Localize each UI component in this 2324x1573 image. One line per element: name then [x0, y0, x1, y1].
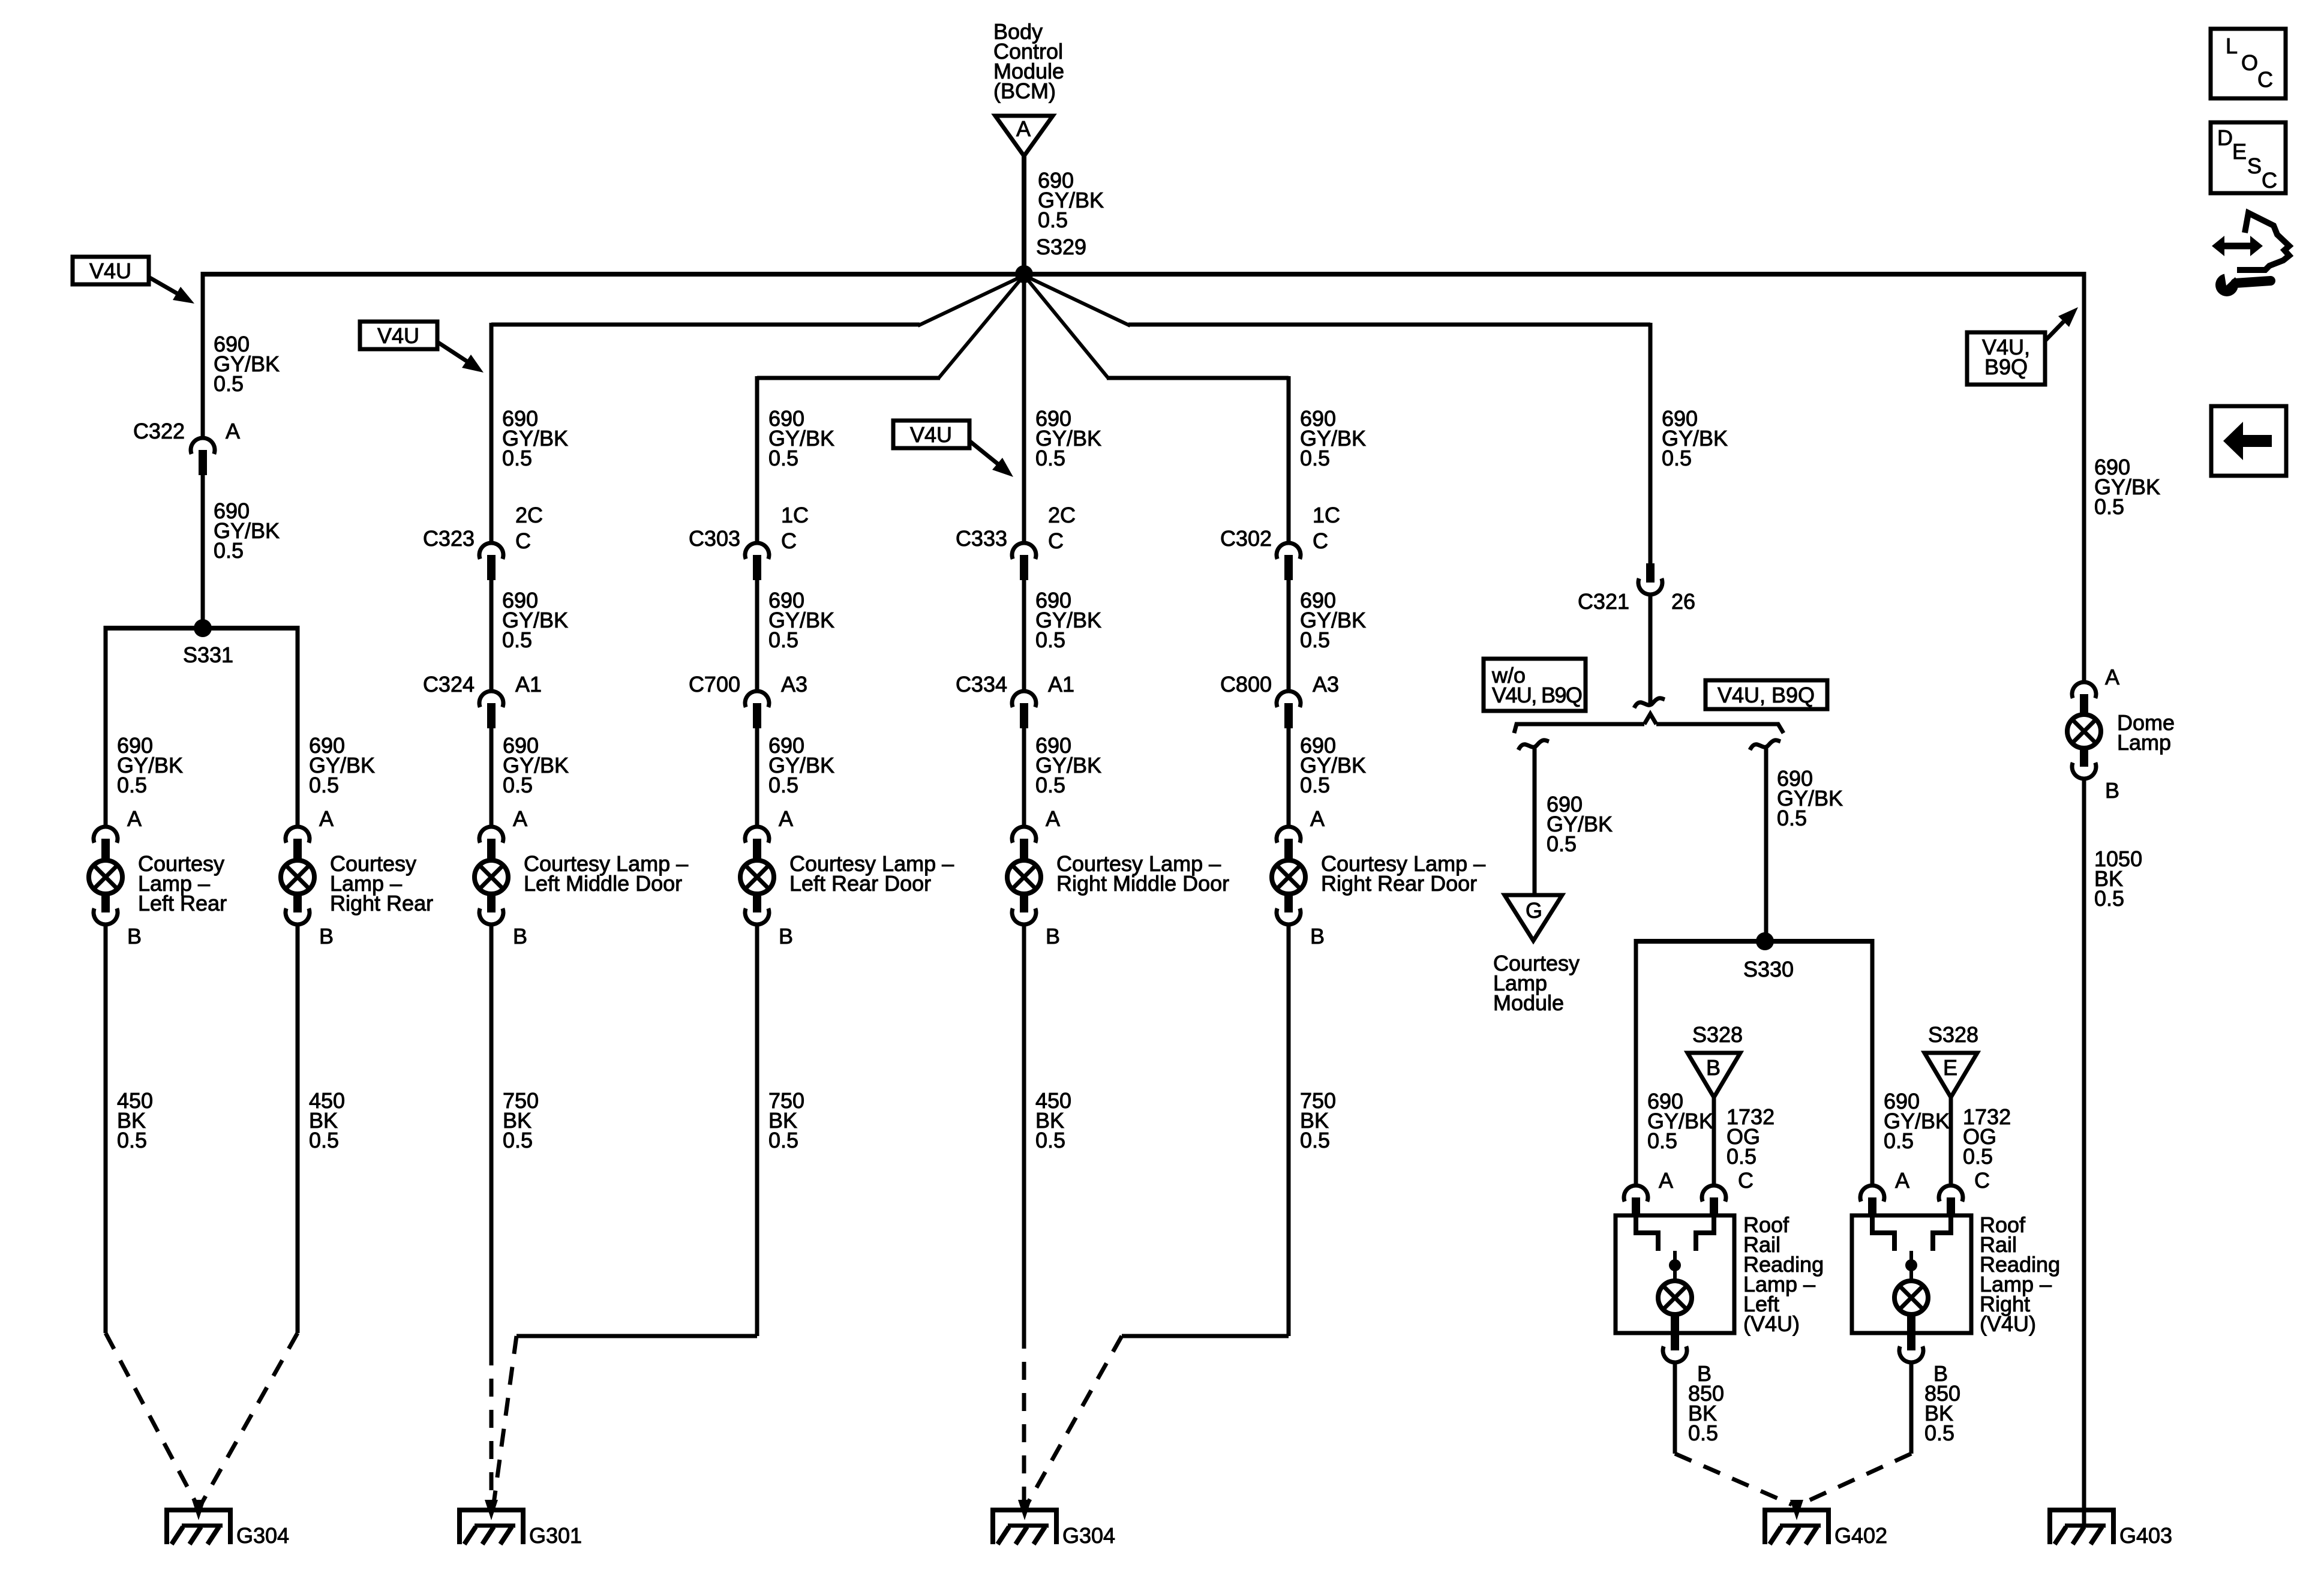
wire S328 B to pin C: [1712, 1097, 1716, 1187]
wire dashed to G304 (from right-rear lamp): [202, 1333, 298, 1503]
svg-text:0.5: 0.5: [768, 446, 798, 470]
svg-text:Module: Module: [1493, 990, 1564, 1015]
svg-text:1C: 1C: [1313, 503, 1340, 527]
ground G403: [2047, 1508, 2116, 1512]
wire dashed to G304 (from left-rear lamp): [106, 1333, 196, 1503]
svg-text:G304: G304: [236, 1523, 289, 1548]
svg-text:0.5: 0.5: [768, 773, 798, 797]
svg-text:C800: C800: [1220, 672, 1272, 697]
pin C connector (left reading lamp): [1702, 1185, 1726, 1202]
svg-text:0.5: 0.5: [214, 538, 244, 563]
svg-text:B9Q: B9Q: [1984, 355, 2028, 379]
svg-text:0.5: 0.5: [1547, 831, 1577, 856]
svg-text:0.5: 0.5: [2094, 494, 2124, 519]
svg-text:0.5: 0.5: [1300, 773, 1330, 797]
connector C700: [745, 691, 769, 707]
pin B connector of Courtesy Lamp Left Middle Door: [479, 908, 503, 924]
wire S328 E to pin C: [1949, 1097, 1953, 1187]
wire S331 to left-rear lamp: [104, 626, 108, 828]
svg-text:0.5: 0.5: [309, 773, 339, 797]
svg-text:C: C: [2262, 168, 2277, 193]
lamp left internal contact A: [1636, 1215, 1658, 1251]
lamp right pin B bar: [1907, 1314, 1915, 1350]
V4U flag box 3: [893, 421, 969, 448]
svg-text:C323: C323: [423, 526, 475, 551]
svg-text:A1: A1: [1048, 672, 1074, 697]
svg-text:C: C: [2257, 67, 2273, 92]
wire dashed to G402 (from left reading lamp): [1675, 1454, 1792, 1505]
svg-text:Right Middle Door: Right Middle Door: [1056, 871, 1229, 896]
dome lamp pin B bar: [2080, 748, 2088, 767]
lamp right internal contact C: [1933, 1215, 1951, 1251]
pin A connector of Courtesy Lamp Left Middle Door: [479, 827, 503, 843]
svg-text:G402: G402: [1834, 1523, 1887, 1548]
wire right reading lamp B down: [1909, 1362, 1914, 1454]
courtesy lamp Courtesy Lamp Right Rear: [281, 860, 314, 894]
wire S331 crossbar: [106, 626, 298, 631]
svg-text:0.5: 0.5: [1300, 1128, 1330, 1152]
lamp left internal stem: [1673, 1251, 1677, 1279]
svg-text:B: B: [127, 924, 142, 948]
connector C333: [1012, 543, 1036, 559]
svg-text:C334: C334: [956, 672, 1007, 697]
pin A connector (left reading lamp): [1624, 1185, 1648, 1202]
svg-text:(V4U): (V4U): [1980, 1311, 2036, 1336]
svg-text:0.5: 0.5: [117, 773, 147, 797]
wire branch down to C321: [1649, 323, 1653, 563]
svg-text:0.5: 0.5: [1035, 1128, 1065, 1152]
wire break mark (above split): [1634, 698, 1665, 708]
pin B connector of Courtesy Lamp Left Rear Door: [745, 908, 769, 924]
pin A connector of dome lamp: [2072, 682, 2096, 698]
courtesy lamp Courtesy Lamp Left Rear Door: [740, 860, 774, 894]
connector C321: [1638, 578, 1662, 595]
svg-text:C324: C324: [423, 672, 475, 697]
pin A connector of Courtesy Lamp Left Rear: [94, 827, 118, 843]
svg-text:C303: C303: [689, 526, 740, 551]
vehicle harness icon: [2237, 213, 2289, 270]
wire main bus from S329 right: [1024, 272, 2085, 277]
svg-text:B: B: [513, 924, 527, 948]
svg-text:0.5: 0.5: [1884, 1128, 1914, 1153]
courtesy lamp Courtesy Lamp Right Rear Door: [1272, 860, 1305, 894]
svg-text:V4U: V4U: [910, 422, 952, 447]
svg-text:0.5: 0.5: [1038, 208, 1068, 232]
lamp left bulb: [1658, 1281, 1692, 1314]
svg-text:2C: 2C: [515, 503, 543, 527]
svg-text:0.5: 0.5: [768, 628, 798, 652]
wire C700 to lamp: [755, 728, 759, 828]
connector C800: [1277, 691, 1301, 707]
svg-text:V4U, B9Q: V4U, B9Q: [1718, 683, 1815, 707]
svg-text:V4U: V4U: [377, 323, 419, 348]
ground G304 (left): [164, 1508, 233, 1512]
wire left-middle lamp B down: [490, 924, 494, 1347]
svg-text:S331: S331: [183, 643, 233, 667]
svg-text:0.5: 0.5: [1300, 446, 1330, 470]
svg-text:A: A: [1659, 1168, 1673, 1193]
splice S331: [194, 619, 212, 637]
wire C334 to lamp: [1022, 728, 1026, 828]
svg-text:C321: C321: [1578, 589, 1629, 614]
pin bar below Courtesy Lamp Left Rear Door: [753, 894, 761, 912]
pin A connector (right reading lamp): [1860, 1185, 1884, 1202]
wire C321 branch horizontal: [1128, 323, 1650, 327]
option split brace: [1514, 724, 1644, 733]
wire branch down to C302: [1287, 376, 1291, 543]
wire left-rear-door branch horizontal: [757, 376, 940, 380]
wire bus to C322: [201, 272, 205, 438]
lamp right internal contact A: [1872, 1215, 1894, 1251]
svg-text:(BCM): (BCM): [993, 79, 1056, 103]
svg-text:A: A: [319, 806, 334, 831]
connector C334: [1012, 691, 1036, 707]
lamp left internal contact C: [1696, 1215, 1714, 1251]
wire S329 to right-rear-door branch (diagonal): [1024, 275, 1109, 379]
pin A connector of Courtesy Lamp Right Middle Door: [1012, 827, 1036, 843]
svg-text:0.5: 0.5: [503, 773, 533, 797]
wire left-rear lamp B down: [104, 924, 108, 1333]
pin B connector (right reading lamp): [1899, 1346, 1923, 1362]
svg-text:Right Rear: Right Rear: [330, 891, 433, 915]
wire C324 to lamp: [490, 728, 494, 828]
svg-text:A: A: [2105, 665, 2119, 689]
wire right-rear lamp B down: [296, 924, 300, 1333]
svg-text:E: E: [1943, 1055, 1957, 1080]
svg-text:L: L: [2226, 34, 2238, 58]
svg-text:0.5: 0.5: [1777, 806, 1807, 830]
svg-text:0.5: 0.5: [1035, 773, 1065, 797]
svg-text:A1: A1: [515, 672, 542, 697]
svg-text:S328: S328: [1928, 1022, 1978, 1047]
wire BCM A to splice S329: [1022, 156, 1026, 277]
wire dashed to G301 (diagonal): [494, 1336, 517, 1503]
pin A connector of Courtesy Lamp Left Rear Door: [745, 827, 769, 843]
svg-text:26: 26: [1671, 589, 1695, 614]
svg-text:0.5: 0.5: [1924, 1421, 1954, 1445]
svg-text:(V4U): (V4U): [1743, 1311, 1800, 1336]
pin B connector of Courtesy Lamp Right Rear: [286, 908, 310, 924]
roof rail reading lamp left box: [1616, 1215, 1734, 1333]
wire S331 to right-rear lamp: [296, 626, 300, 828]
svg-text:E: E: [2232, 139, 2247, 164]
connector C324: [479, 691, 503, 707]
svg-text:C: C: [781, 529, 797, 553]
BCM connector triangle A: [995, 116, 1053, 156]
wire left-middle-door branch horizontal: [491, 323, 920, 327]
svg-text:C700: C700: [689, 672, 740, 697]
pin bar below Courtesy Lamp Left Rear: [101, 894, 110, 912]
courtesy lamp Courtesy Lamp Right Middle Door: [1007, 860, 1041, 894]
wire C321 down to option split: [1649, 595, 1653, 703]
svg-text:A: A: [1016, 116, 1031, 141]
pin B connector of dome lamp: [2072, 763, 2096, 779]
svg-text:A: A: [226, 419, 240, 443]
wire S329 to left-rear-door branch (diagonal): [938, 275, 1024, 379]
svg-text:S: S: [2247, 154, 2262, 178]
wire C800 to lamp: [1287, 728, 1291, 828]
svg-text:0.5: 0.5: [1727, 1144, 1756, 1169]
svg-text:0.5: 0.5: [214, 371, 244, 396]
wire branch down to C323: [490, 323, 494, 543]
svg-text:0.5: 0.5: [1647, 1128, 1677, 1153]
w/o V4U B9Q option box: [1484, 659, 1586, 711]
svg-text:Right Rear Door: Right Rear Door: [1321, 871, 1477, 896]
svg-text:0.5: 0.5: [309, 1128, 339, 1152]
svg-text:C: C: [1738, 1168, 1753, 1193]
V4U flag box 1: [73, 257, 149, 284]
svg-text:O: O: [2241, 50, 2258, 75]
wire S329 to C321 branch (diagonal): [1024, 275, 1130, 326]
svg-text:A: A: [779, 806, 793, 831]
wire dashed to G304 middle (vertical): [1022, 1331, 1026, 1505]
connector C303: [745, 543, 769, 559]
wire left-rear-door lamp horizontal to G301: [517, 1334, 757, 1338]
svg-text:V4U, B9Q: V4U, B9Q: [1492, 683, 1582, 707]
wire S330 to right reading lamp pin A: [1870, 939, 1875, 1187]
svg-text:A3: A3: [781, 672, 807, 697]
wire branch down to C303: [755, 376, 759, 543]
pin bar below Courtesy Lamp Right Rear: [293, 894, 302, 912]
wire right-rear-door lamp B down: [1287, 924, 1291, 1336]
svg-text:A: A: [513, 806, 527, 831]
svg-text:B: B: [2105, 778, 2119, 803]
lamp right bulb: [1894, 1281, 1928, 1314]
connector C323: [479, 543, 503, 559]
svg-text:S329: S329: [1036, 235, 1086, 259]
wire right-rear-door lamp horizontal to G304: [1122, 1334, 1289, 1338]
svg-text:0.5: 0.5: [503, 1128, 533, 1152]
pin C connector (right reading lamp): [1939, 1185, 1963, 1202]
svg-text:G304: G304: [1062, 1523, 1115, 1548]
svg-text:C322: C322: [133, 419, 185, 443]
wire S330 crossbar: [1636, 939, 1872, 944]
svg-text:A: A: [127, 806, 142, 831]
svg-text:G301: G301: [529, 1523, 582, 1548]
svg-text:D: D: [2217, 125, 2233, 150]
wire right-rear-door branch horizontal: [1107, 376, 1289, 380]
svg-text:0.5: 0.5: [2094, 886, 2124, 911]
wire C323 to C324: [490, 580, 494, 691]
splice S330: [1756, 932, 1774, 950]
V4U B9Q flag box (dome lamp): [1967, 332, 2045, 385]
svg-text:G: G: [1526, 898, 1542, 923]
V4U B9Q flag arrow (dome lamp): [2045, 322, 2064, 341]
svg-text:C: C: [1974, 1168, 1990, 1193]
lamp left pin B bar: [1671, 1314, 1679, 1350]
svg-text:C: C: [515, 529, 531, 553]
svg-text:S330: S330: [1743, 957, 1794, 981]
svg-text:A: A: [1895, 1168, 1909, 1193]
wire left reading lamp B down: [1673, 1362, 1677, 1454]
wire V4U branch down to S330: [1764, 748, 1768, 941]
wire left-rear-door lamp B down: [755, 924, 759, 1336]
wire S329 to left-middle-door branch (diagonal): [918, 275, 1024, 326]
pin B connector of Courtesy Lamp Right Middle Door: [1012, 908, 1036, 924]
svg-text:1C: 1C: [781, 503, 809, 527]
svg-text:0.5: 0.5: [502, 446, 532, 470]
svg-text:0.5: 0.5: [117, 1128, 147, 1152]
wire right-middle lamp B down: [1022, 924, 1026, 1331]
V4U flag arrow 1: [149, 277, 177, 293]
connector C302: [1277, 543, 1301, 559]
wire C322 to S331: [201, 475, 205, 628]
V4U flag arrow 2: [437, 342, 467, 361]
V4U flag arrow 3: [969, 441, 998, 464]
pin bar below Courtesy Lamp Right Middle Door: [1020, 894, 1028, 912]
pin A connector of Courtesy Lamp Right Rear Door: [1277, 827, 1301, 843]
splice triangle S328 B: [1688, 1053, 1740, 1097]
svg-text:C: C: [1048, 529, 1064, 553]
courtesy lamp module triangle G: [1505, 895, 1562, 941]
svg-text:Left Middle Door: Left Middle Door: [524, 871, 682, 896]
roof rail reading lamp right box: [1852, 1215, 1971, 1333]
svg-text:A: A: [1310, 806, 1325, 831]
svg-text:Lamp: Lamp: [2117, 730, 2171, 755]
LOC legend box: [2211, 29, 2286, 98]
wire C303 to C700: [755, 580, 759, 691]
svg-text:Left Rear: Left Rear: [138, 891, 227, 915]
svg-text:C333: C333: [956, 526, 1007, 551]
ground G304 (middle): [990, 1508, 1059, 1512]
courtesy lamp Courtesy Lamp Left Middle Door: [475, 860, 508, 894]
wire dome lamp B down to G403: [2082, 779, 2086, 1527]
svg-text:Left Rear Door: Left Rear Door: [789, 871, 931, 896]
svg-text:0.5: 0.5: [1035, 628, 1065, 652]
svg-text:0.5: 0.5: [1688, 1421, 1718, 1445]
svg-text:C: C: [1313, 529, 1328, 553]
svg-text:A: A: [1046, 806, 1060, 831]
svg-text:B: B: [1706, 1055, 1721, 1080]
wire S329 down to C333: [1022, 274, 1026, 543]
svg-text:0.5: 0.5: [502, 628, 532, 652]
dome lamp bulb: [2067, 715, 2101, 748]
svg-text:0.5: 0.5: [1963, 1144, 1993, 1169]
svg-text:B: B: [779, 924, 793, 948]
svg-text:G403: G403: [2119, 1523, 2172, 1548]
svg-text:B: B: [319, 924, 334, 948]
wire break mark (V4U branch): [1750, 740, 1780, 750]
DESC legend box: [2211, 122, 2286, 193]
wire bus to dome lamp: [2082, 272, 2086, 684]
wire dashed to G301 (vertical): [490, 1347, 494, 1505]
svg-text:0.5: 0.5: [1662, 446, 1692, 470]
svg-text:0.5: 0.5: [1035, 446, 1065, 470]
wire C333 to C334: [1022, 580, 1026, 691]
connector C322: [191, 438, 215, 454]
wire C302 to C800: [1287, 580, 1291, 691]
V4U B9Q option box: [1706, 680, 1827, 709]
svg-text:V4U: V4U: [89, 259, 131, 283]
wire dashed to G402 (from right reading lamp): [1800, 1454, 1911, 1505]
svg-text:A3: A3: [1313, 672, 1339, 697]
svg-text:2C: 2C: [1048, 503, 1076, 527]
wire dashed to G304 middle (diagonal): [1028, 1336, 1122, 1503]
svg-text:B: B: [1046, 924, 1060, 948]
back arrow legend box: [2211, 406, 2286, 476]
pin A connector of Courtesy Lamp Right Rear: [286, 827, 310, 843]
courtesy lamp Courtesy Lamp Left Rear: [89, 860, 122, 894]
splice S329: [1015, 265, 1033, 283]
svg-text:0.5: 0.5: [768, 1128, 798, 1152]
splice triangle S328 E: [1924, 1053, 1977, 1097]
wire w/o branch down to G triangle: [1533, 748, 1537, 896]
pin bar below Courtesy Lamp Left Middle Door: [487, 894, 496, 912]
pin bar below Courtesy Lamp Right Rear Door: [1284, 894, 1293, 912]
svg-text:B: B: [1310, 924, 1325, 948]
lamp right internal stem: [1909, 1251, 1913, 1279]
pin B connector (left reading lamp): [1663, 1346, 1687, 1362]
wire break mark (w/o branch): [1518, 740, 1549, 750]
pin B connector of Courtesy Lamp Left Rear: [94, 908, 118, 924]
svg-text:C302: C302: [1220, 526, 1272, 551]
ground G301: [457, 1508, 526, 1512]
svg-text:S328: S328: [1692, 1022, 1743, 1047]
ground G402: [1762, 1508, 1831, 1512]
V4U flag box 2: [360, 322, 437, 349]
wire main bus from S329 left: [203, 272, 1024, 277]
pin B connector of Courtesy Lamp Right Rear Door: [1277, 908, 1301, 924]
svg-text:0.5: 0.5: [1300, 628, 1330, 652]
wire S330 to left reading lamp pin A: [1634, 939, 1638, 1187]
